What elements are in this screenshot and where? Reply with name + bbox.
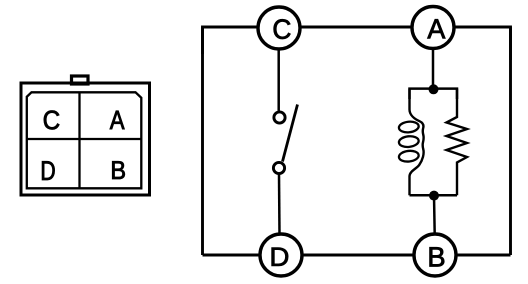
terminal D	[260, 234, 302, 276]
wire switch lower contact to terminal D	[278, 175, 281, 235]
pin label D	[42, 161, 55, 180]
wire top middle horizontal (terminal C to terminal A)	[301, 26, 412, 29]
wire top-left horizontal (corner to terminal C)	[203, 27, 258, 54]
wire terminal C to switch upper contact	[277, 49, 280, 111]
wire left vertical	[201, 27, 204, 255]
wire right vertical	[509, 27, 512, 255]
connector keying tab	[72, 76, 89, 84]
switch S1 upper contact	[274, 112, 285, 123]
connector cavity horizontal divider	[27, 138, 142, 140]
connector housing J1 outer body	[21, 83, 150, 195]
switch S1 lower contact	[273, 162, 284, 173]
node junction bottom	[429, 191, 439, 201]
pin label A	[110, 111, 125, 129]
terminal C	[258, 7, 300, 49]
wire bottom middle horizontal (terminal D to terminal B)	[303, 254, 414, 257]
wire bottom-right horizontal (terminal B to corner)	[457, 254, 511, 257]
wire parallel-branch bottom rail	[410, 194, 458, 197]
switch S1 blade	[283, 105, 298, 162]
terminal B	[414, 234, 456, 276]
inductor coil L1 loop 2	[398, 135, 419, 148]
connector cavity outline	[27, 92, 142, 188]
wire top-right horizontal (terminal A to corner)	[455, 27, 511, 60]
wire parallel-branch top rail	[410, 89, 458, 99]
terminal A	[412, 7, 454, 49]
pin label B	[112, 161, 125, 179]
pin label C	[44, 111, 59, 130]
resistor R1	[447, 89, 468, 196]
wire terminal A to node	[432, 48, 435, 89]
inductor coil L1 loop 1	[398, 121, 419, 134]
wire bottom-left horizontal (corner to terminal D)	[203, 254, 260, 257]
inductor coil L1 loop 3	[398, 150, 419, 163]
node junction top	[429, 84, 439, 94]
connector cavity vertical divider	[78, 92, 80, 188]
inductor coil L1 spine	[410, 89, 424, 196]
wire node to terminal B	[433, 196, 436, 235]
